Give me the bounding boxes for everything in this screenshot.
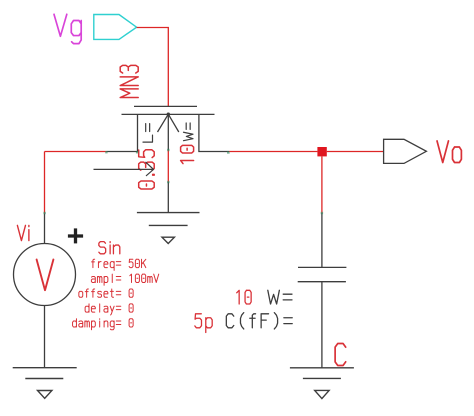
transistor MN3 gate plate [122, 106, 230, 212]
capacitor C bottom plate [298, 281, 346, 283]
label C [335, 344, 346, 366]
value 10 (cap W) [237, 290, 251, 304]
junction specks [43, 149, 323, 214]
plus sign [68, 228, 83, 243]
transistor right leg [199, 114, 229, 151]
param ampl [91, 274, 120, 285]
wire node to pin [327, 151, 384, 153]
bulk arrow [94, 162, 154, 176]
output pin Vo [384, 139, 427, 163]
param delay [85, 304, 121, 315]
ground (Vi) [13, 368, 77, 399]
transistor left leg [137, 114, 139, 151]
value 0.35 [139, 150, 155, 189]
input pin Vg [94, 15, 137, 40]
transistor left leg stub [107, 151, 138, 153]
label Sin [99, 242, 120, 254]
label Vo [437, 141, 461, 163]
label W= [184, 123, 194, 141]
vsource Vi circle [14, 244, 76, 306]
ground stub (bulk) [167, 182, 169, 213]
ground (C) [290, 368, 354, 399]
wire node down [321, 156, 323, 213]
wire gate net [137, 28, 169, 107]
param value 100mV [130, 274, 159, 282]
label MN3 [120, 65, 138, 97]
param value 50K [129, 259, 146, 267]
label Vi [17, 225, 28, 240]
vsource Vi pin stub top [14, 213, 76, 367]
value 5p [195, 314, 212, 333]
node solder dot [317, 147, 326, 156]
glyph V of source [37, 260, 54, 291]
label C(fF)= [226, 313, 292, 329]
capacitor C top plate [298, 266, 346, 268]
param value 0 [129, 304, 133, 312]
value 10 [181, 145, 194, 163]
param value 0 [129, 319, 133, 327]
ground (bulk) [137, 213, 200, 244]
param offset [79, 289, 121, 297]
param freq [92, 259, 121, 270]
wire input net vertical [44, 152, 46, 214]
label L= [143, 124, 153, 142]
transistor source arrow [158, 114, 169, 132]
capacitor C bottom stub [321, 282, 323, 368]
label Vg [54, 14, 81, 43]
transistor bulk stub upper [167, 114, 169, 150]
vsource Vi pin stub bottom [44, 306, 46, 368]
junction dot [167, 113, 170, 116]
wire bulk net [167, 150, 169, 182]
label W= (cap) [268, 290, 292, 304]
param damping [73, 319, 121, 330]
capacitor C top stub [298, 213, 347, 368]
transistor channel plate [122, 113, 215, 115]
param value 0 [129, 289, 133, 297]
wire output net [229, 151, 317, 153]
wire input net horizontal [45, 151, 107, 153]
